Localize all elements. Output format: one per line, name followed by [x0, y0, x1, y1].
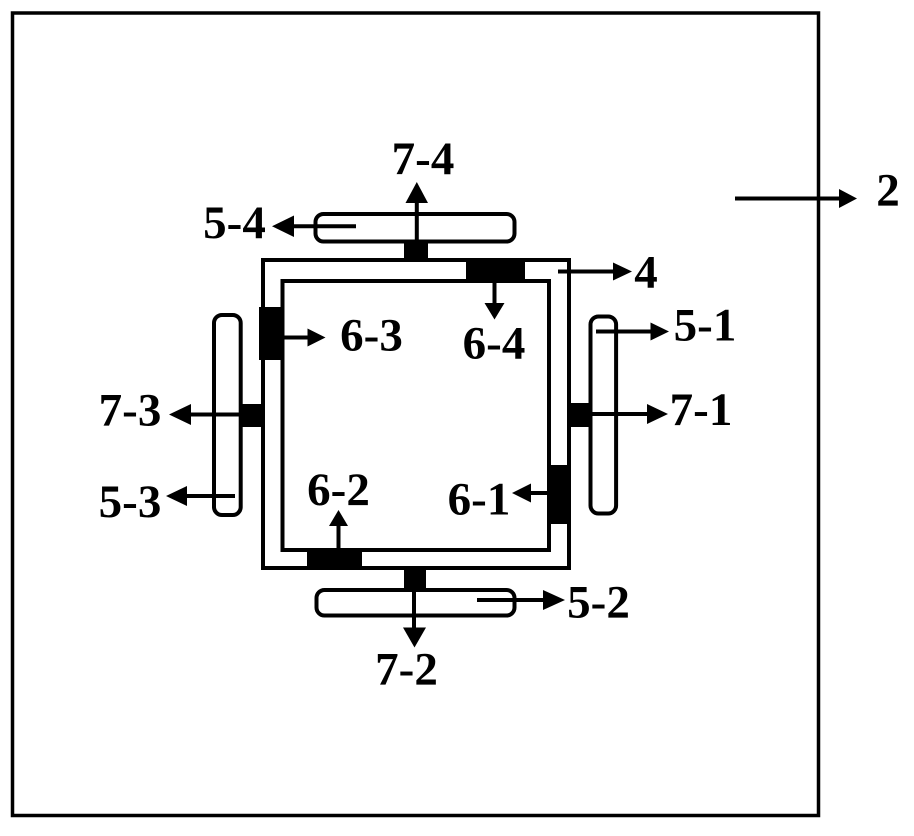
- svg-text:2: 2: [876, 165, 900, 217]
- arrow 5-2: [477, 590, 565, 610]
- frame 4 inner square: [283, 281, 550, 550]
- arrow 5-3: [166, 486, 235, 506]
- svg-text:6-4: 6-4: [463, 318, 526, 370]
- svg-text:5-2: 5-2: [567, 577, 630, 629]
- anchor 7-4 (top black connector): [404, 243, 428, 259]
- beam 5-4 (top rectangle): [316, 214, 515, 242]
- arrow 7-2: [403, 572, 426, 648]
- beam 5-2 (bottom rectangle): [317, 590, 515, 616]
- frame 4 outer square: [263, 260, 569, 568]
- electrode 6-1 (right side black block): [549, 465, 570, 524]
- svg-text:6-1: 6-1: [448, 474, 511, 526]
- arrow 6-1: [512, 484, 549, 503]
- beam 5-1 (right rectangle): [591, 317, 617, 514]
- arrow 2: [735, 189, 857, 208]
- svg-text:7-2: 7-2: [375, 644, 438, 696]
- arrow 5-4: [272, 216, 356, 238]
- electrode 6-4 (top side black block): [466, 259, 525, 280]
- arrow 7-4: [406, 182, 429, 252]
- svg-text:5-4: 5-4: [203, 197, 266, 249]
- beam 5-3 (left rectangle): [214, 315, 241, 515]
- arrow 4: [558, 263, 632, 281]
- svg-text:6-2: 6-2: [307, 464, 370, 516]
- svg-text:4: 4: [634, 247, 658, 299]
- arrow 6-3: [282, 329, 326, 347]
- svg-text:7-3: 7-3: [99, 385, 162, 437]
- svg-text:6-3: 6-3: [340, 310, 403, 362]
- arrow 7-3: [169, 404, 242, 425]
- svg-text:7-1: 7-1: [670, 384, 733, 436]
- anchor 7-2 (bottom black connector): [404, 569, 426, 588]
- anchor 7-3 (left black connector): [242, 404, 261, 427]
- arrow 6-2: [329, 510, 348, 549]
- electrode 6-2 (bottom side black block): [307, 550, 362, 569]
- anchor 7-1 (right black connector): [571, 403, 590, 427]
- svg-text:5-3: 5-3: [99, 476, 162, 528]
- arrow 5-1: [596, 323, 669, 341]
- svg-text:7-4: 7-4: [392, 133, 455, 185]
- arrow 7-1: [590, 404, 668, 424]
- electrode 6-3 (left side black block): [259, 307, 282, 360]
- svg-text:5-1: 5-1: [674, 300, 737, 352]
- arrow 6-4: [485, 281, 505, 320]
